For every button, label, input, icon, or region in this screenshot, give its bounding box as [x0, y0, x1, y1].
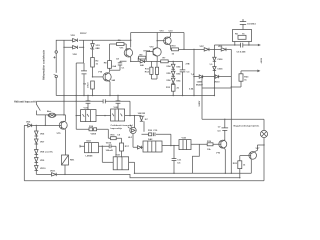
wire left long vertical — [75, 63, 77, 129]
wire VT7 emitter vertical — [250, 160, 252, 174]
resistor R11 — [150, 67, 153, 74]
optocoupler U2 — [111, 109, 125, 121]
wire C1 vertical — [119, 61, 121, 70]
cap CU2 — [116, 101, 121, 103]
wire VT5 collector vertical — [65, 115, 67, 121]
zener VD14 — [213, 57, 216, 61]
thermistor RK1 — [62, 155, 69, 165]
wire VT7 collector jog — [257, 144, 264, 146]
resistor R15 — [111, 137, 117, 140]
bottom diode VD11 — [52, 173, 57, 176]
wire DA2 output — [162, 145, 179, 147]
wire diode chain top line — [24, 124, 59, 126]
lamp HL1 — [260, 130, 267, 137]
wire main left vertical node — [63, 40, 65, 115]
wire mains line with cap — [37, 100, 131, 102]
wire VT3 base lead — [157, 40, 165, 42]
svg-text:100/1W: 100/1W — [138, 113, 146, 115]
wire R16 corner drop — [170, 134, 172, 145]
resistor R5 — [117, 43, 125, 46]
svg-text:Nagyfeszültségü kijelzés: Nagyfeszültségü kijelzés — [234, 124, 261, 127]
wire R11 R12 pair leads — [151, 61, 157, 79]
diode VD3 — [73, 39, 78, 42]
resistor R8 — [108, 61, 112, 69]
wire bottom rail B — [135, 172, 252, 174]
chain diode VD6 — [35, 131, 39, 136]
wire bottom rail A — [36, 174, 240, 177]
wire main mid rail 0V — [56, 95, 214, 97]
wire U3 out drop — [134, 162, 136, 173]
wire R7 rail — [151, 60, 182, 62]
wire emitter jog left mid — [76, 62, 83, 64]
input diode VD5 — [28, 124, 32, 127]
transistor VT3 — [164, 33, 172, 50]
wire VT1 collector vertical — [130, 33, 132, 48]
resistor R16 — [149, 133, 152, 136]
capacitor C6 — [241, 43, 243, 48]
wire switch line — [36, 101, 38, 115]
wire fuse to base drop — [44, 115, 46, 126]
wire U2 output — [125, 115, 142, 117]
svg-text:KT815: KT815 — [144, 51, 151, 53]
chain diode VD7 — [35, 139, 39, 144]
chain diode VD21 — [171, 71, 175, 76]
resistor R3 — [91, 81, 95, 89]
svg-text:FR107: FR107 — [80, 33, 87, 35]
capacitor C1 — [118, 63, 122, 65]
wire DA1 left lead — [80, 145, 85, 148]
cap CU1 — [86, 101, 91, 103]
wire R22 vertical — [239, 156, 241, 178]
transistor VT7 — [249, 150, 258, 160]
capacitor C3 — [180, 70, 186, 72]
wire bridge left rail — [193, 49, 195, 95]
battery terminal minus — [55, 75, 57, 77]
wire VT2 collector vertical — [156, 33, 158, 48]
wire zener VD13 branch — [143, 116, 145, 132]
wire fuse line — [37, 114, 66, 116]
wire LED branch — [133, 116, 135, 148]
wire VT4 emitter vertical — [109, 82, 111, 96]
wire mains bottom return — [24, 180, 264, 182]
diode VDDA — [138, 146, 142, 149]
zener VD1 — [91, 44, 94, 50]
wire mains corner to U2 out — [129, 101, 131, 115]
svg-text:kapcsolója: kapcsolója — [111, 128, 123, 130]
chain diode VD20 — [171, 64, 175, 69]
svg-text:C936: C936 — [217, 69, 223, 71]
wire U2 top cap stub — [117, 96, 119, 110]
svg-text:VD10: VD10 — [40, 168, 46, 170]
wire C3 branch — [182, 61, 184, 95]
battery terminal plus — [55, 51, 57, 53]
wire C5 leads — [242, 19, 244, 30]
svg-text:KC: KC — [145, 119, 149, 121]
svg-text:~48 B: ~48 B — [260, 58, 263, 64]
svg-text:VD10: VD10 — [214, 81, 220, 83]
svg-text:Csökkentö üzemmód: Csökkentö üzemmód — [111, 124, 134, 127]
bridge diode VD19 — [215, 75, 219, 78]
svg-text:VD11: VD11 — [50, 171, 56, 173]
optocoupler U1 — [81, 110, 96, 122]
svg-text:DA1: DA1 — [87, 139, 92, 142]
output arrow upper — [258, 44, 261, 47]
wire R14 corner drop — [107, 129, 109, 138]
optocoupler U3 — [113, 157, 128, 170]
wire mains left vertical — [23, 125, 25, 180]
wire U4 bottom pin drop — [193, 144, 200, 173]
resistor R9 — [139, 56, 146, 59]
transistor VT5 — [59, 121, 67, 130]
mains capacitor C4 — [103, 99, 105, 103]
wire R23 bottom link — [231, 86, 241, 88]
transistor VT2 — [153, 48, 161, 57]
snubber box R6 — [233, 30, 252, 42]
capacitor C10 — [153, 133, 155, 137]
wire battery minus lead — [55, 78, 57, 96]
wire VD2 drop vertical — [83, 40, 85, 63]
wire snubber rail — [214, 45, 258, 49]
resistor R2 — [91, 58, 95, 68]
chain diode VD9 — [35, 158, 39, 163]
wire C7 branch — [224, 119, 226, 140]
wire lamp feed line — [202, 118, 264, 120]
wire VT4 base lead — [93, 76, 104, 78]
zener VD13 — [140, 116, 143, 121]
wire R16 C10 line — [142, 133, 171, 135]
bridge diode VD17 — [221, 48, 226, 51]
wire top rail — [131, 32, 184, 34]
wire lamp top lead — [263, 119, 265, 130]
capacitor C2 — [81, 71, 87, 74]
svg-text:C936: C936 — [217, 59, 223, 61]
wire bridge top rail — [170, 48, 231, 50]
wire C1 bottom link — [110, 69, 120, 71]
wire C11 branch — [173, 146, 175, 174]
wire VT7 base lead — [240, 155, 249, 157]
wire R17 link verticals — [121, 138, 123, 157]
output arrow lower — [257, 70, 260, 73]
capacitor C11 — [172, 159, 177, 161]
wire top battery rail — [56, 40, 131, 51]
wire optocoupler U1 left lead — [76, 115, 80, 117]
wire U1 to U2 link — [96, 115, 111, 117]
wire bridge right long vertical — [230, 49, 232, 173]
wire R14 line — [76, 128, 108, 130]
transistor VT4 — [103, 72, 111, 82]
svg-text:VD16: VD16 — [106, 142, 112, 144]
diode VD4 parallel R9 — [140, 60, 144, 63]
wire DA1 output — [99, 145, 117, 147]
wire diode chain vertical — [35, 125, 37, 174]
svg-text:0/48V: 0/48V — [198, 100, 201, 106]
resistor R23 — [239, 74, 243, 81]
wire R5 lead — [110, 43, 127, 45]
wire C2 branch — [83, 63, 85, 96]
transistor VT1 — [124, 48, 132, 62]
resistor R12 — [155, 67, 158, 74]
zener VD15 — [213, 67, 216, 71]
svg-text:100mB: 100mB — [106, 150, 114, 152]
wire bridge left corner drop — [201, 77, 203, 120]
wire U3 left lead — [102, 161, 113, 163]
chain diode VD10 — [35, 166, 39, 171]
wire R8 vertical — [109, 44, 111, 72]
wire U4 output to R19 — [191, 143, 219, 145]
svg-text:Hálózati kapcsoló: Hálózati kapcsoló — [14, 100, 36, 104]
wire bridge mid vertical — [213, 49, 215, 95]
wire R9 lead — [131, 52, 154, 62]
svg-text:DA2: DA2 — [148, 138, 153, 141]
resistor R10 — [172, 48, 179, 51]
svg-text:27B: 27B — [186, 64, 190, 66]
svg-text:C6 0,068: C6 0,068 — [237, 52, 247, 54]
svg-text:LM358: LM358 — [86, 156, 94, 158]
wire bridge lower link — [202, 87, 231, 89]
svg-text:Bizt.: Bizt. — [47, 110, 52, 113]
chain diode VD8 — [35, 150, 39, 155]
svg-text:RK1: RK1 — [70, 160, 75, 162]
wire DA1 out corner drop — [102, 146, 116, 162]
wire VT6 emitter vertical — [224, 149, 226, 173]
wire VT1 base drop — [125, 44, 127, 49]
wire second diode rail — [64, 46, 84, 48]
timer U4 — [179, 140, 191, 150]
diode VD2 — [73, 46, 78, 49]
resistor R14a — [89, 128, 93, 131]
resistor R14b — [94, 128, 97, 131]
wire VT2 emitter vertical — [156, 56, 158, 61]
wire VT5 emitter to RK — [64, 130, 67, 175]
chain diode VD22 — [171, 78, 175, 83]
switch SA1 — [37, 104, 41, 110]
resistor R17 — [120, 143, 124, 151]
opamp DA1 — [85, 143, 99, 153]
wire top rail right drop — [183, 33, 185, 50]
wire R23 leads — [240, 71, 242, 87]
resistor R22 — [238, 161, 242, 169]
wire output arrow line lower — [241, 70, 258, 72]
wire U3 output — [129, 161, 135, 163]
wire battery plus lead — [55, 53, 57, 73]
wire zener chain vertical — [92, 40, 94, 95]
transistor VT6 — [219, 140, 227, 150]
opamp DA2 — [143, 141, 162, 152]
wire VT7 collector vertical — [256, 145, 258, 151]
svg-text:BU407: BU407 — [196, 84, 204, 87]
svg-text:100,0: 100,0 — [88, 82, 90, 88]
svg-text:Akkumulátor csatlakozás: Akkumulátor csatlakozás — [43, 49, 46, 80]
svg-text:VD8 cserélh.: VD8 cserélh. — [40, 152, 54, 154]
bridge diode VD18 — [199, 75, 203, 78]
cap CDA — [109, 144, 111, 148]
resistor R7 — [161, 60, 169, 63]
capacitor C5 — [240, 22, 246, 25]
wire snubber stubs — [235, 42, 249, 46]
svg-text:C5 680,0: C5 680,0 — [247, 24, 257, 26]
wire C1 stub — [120, 60, 127, 62]
wire R15 line — [108, 137, 121, 139]
capacitor C7 — [222, 128, 229, 130]
wire U1 top cap stub — [87, 96, 89, 110]
resistor R13 — [171, 85, 175, 92]
wire chain2 vertical — [172, 61, 174, 95]
bridge diode VD16 — [204, 48, 209, 51]
svg-text:120B: 120B — [197, 81, 203, 83]
LED VD12 — [128, 125, 136, 134]
wire bridge bottom rail — [194, 76, 231, 78]
wire lamp bottom vertical — [263, 138, 265, 181]
fuse FU1 — [48, 113, 56, 117]
resistor R19 — [207, 143, 213, 146]
svg-text:VD08: VD08 — [91, 134, 97, 136]
wire DA2 left lead with diode — [133, 146, 143, 148]
